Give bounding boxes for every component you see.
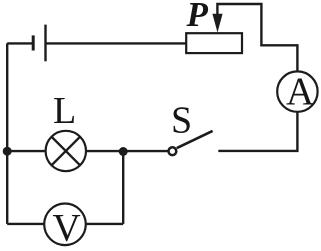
svg-text:L: L: [53, 90, 76, 132]
svg-text:S: S: [171, 100, 192, 142]
svg-text:A: A: [286, 70, 314, 113]
svg-text:P: P: [186, 0, 209, 34]
svg-text:V: V: [53, 207, 81, 250]
